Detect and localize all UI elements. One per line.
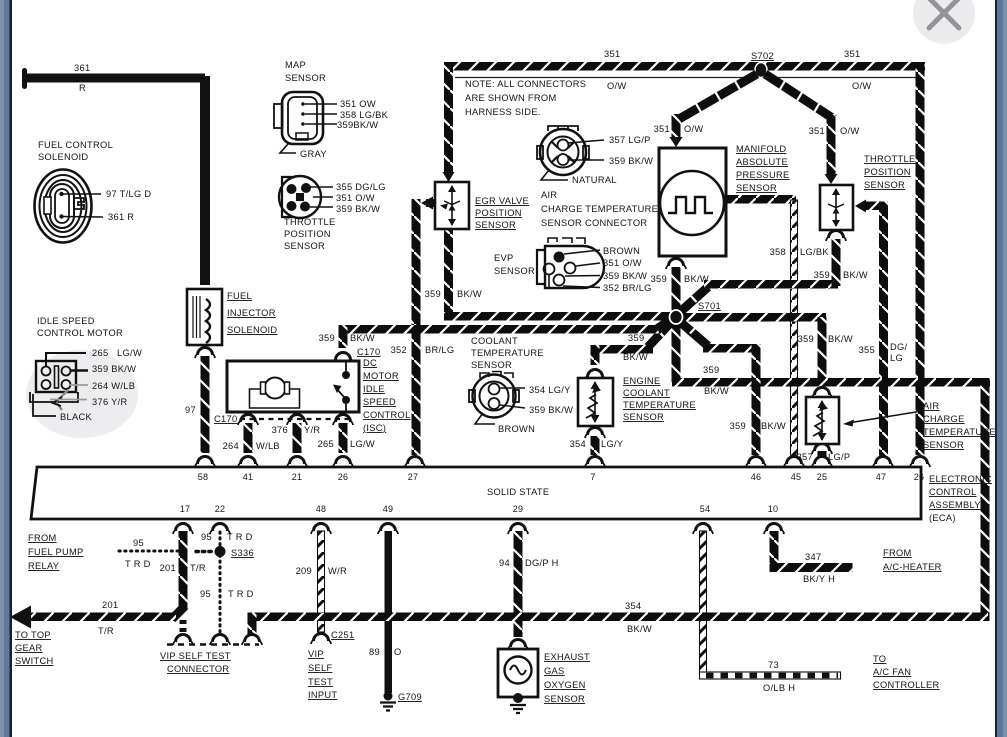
long 354 BK/W hatched bar across bottom	[248, 613, 988, 622]
svg-text:GEAR: GEAR	[15, 643, 43, 653]
svg-text:R: R	[79, 83, 86, 93]
svg-text:264 W/LB: 264 W/LB	[92, 381, 135, 391]
svg-text:357 LG/P: 357 LG/P	[609, 135, 651, 145]
svg-text:INJECTOR: INJECTOR	[227, 308, 276, 318]
svg-text:LG: LG	[890, 353, 903, 363]
right border vertical from bar y=382 down to 354 bar	[981, 378, 990, 621]
svg-text:359 BK/W: 359 BK/W	[336, 204, 380, 214]
svg-text:O/W: O/W	[840, 126, 860, 136]
svg-text:264: 264	[223, 441, 239, 451]
svg-text:AIR: AIR	[923, 401, 939, 411]
S702 diagonal wire to TPS feed	[765, 74, 834, 119]
svg-text:TEMPERATURE: TEMPERATURE	[623, 400, 696, 410]
svg-text:BK/W: BK/W	[828, 334, 853, 344]
ISC top wire 359 BK/W	[339, 325, 348, 348]
svg-text:A/C FAN: A/C FAN	[873, 667, 911, 677]
svg-text:SENSOR: SENSOR	[285, 73, 326, 83]
svg-text:25: 25	[817, 472, 827, 482]
svg-text:26: 26	[338, 472, 348, 482]
svg-text:FUEL CONTROL: FUEL CONTROL	[38, 140, 113, 150]
ECT sensor box (thermistor)	[578, 378, 613, 426]
svg-text:T R D: T R D	[227, 532, 253, 542]
svg-text:PRESSURE: PRESSURE	[736, 170, 790, 180]
ECA solid state box	[31, 467, 921, 519]
svg-text:RELAY: RELAY	[28, 561, 59, 571]
svg-text:357: 357	[797, 452, 813, 462]
svg-text:SENSOR: SENSOR	[623, 412, 664, 422]
pin 46 wire 359 BK/W down	[752, 344, 761, 455]
ACT bottom wire 357 LG/P to pin 25	[818, 451, 827, 456]
svg-text:DG/P H: DG/P H	[525, 558, 559, 568]
bar y=317 from S701 right to ACT drop	[676, 313, 826, 322]
cap below fuel injector solenoid	[195, 348, 215, 359]
svg-text:EXHAUST: EXHAUST	[544, 652, 590, 662]
svg-text:(ISC): (ISC)	[363, 423, 386, 433]
node S702	[755, 63, 767, 78]
svg-text:T R D: T R D	[228, 589, 254, 599]
svg-text:O/W: O/W	[607, 81, 627, 91]
svg-text:359: 359	[628, 333, 644, 343]
wire 201 T/R to left arrow	[26, 613, 176, 622]
svg-text:POSITION: POSITION	[284, 229, 331, 239]
svg-text:351: 351	[604, 49, 620, 59]
svg-text:BK/Y H: BK/Y H	[803, 574, 835, 584]
switch contacts	[345, 361, 347, 371]
coolant temperature sensor connector	[469, 372, 519, 418]
end cap of wire 361 R	[22, 68, 27, 89]
svg-text:SENSOR: SENSOR	[471, 360, 512, 370]
svg-text:FROM: FROM	[883, 548, 912, 558]
ECT bottom wire 354 LG/Y to pin 7	[591, 436, 600, 455]
cap below MAP sensor	[666, 259, 686, 270]
svg-text:48: 48	[316, 504, 326, 514]
svg-text:BROWN: BROWN	[603, 246, 640, 256]
NATURAL hook	[541, 170, 568, 180]
pin 29 wire 94 DG/P H down to EGO sensor	[514, 531, 523, 637]
svg-text:G709: G709	[398, 692, 422, 702]
svg-text:29: 29	[513, 504, 523, 514]
MAP bottom wire 359 BK/W to S701	[672, 267, 681, 314]
DC motor ISC box	[227, 361, 359, 412]
svg-text:BROWN: BROWN	[498, 424, 535, 434]
svg-text:352 BR/LG: 352 BR/LG	[603, 283, 652, 293]
svg-text:W/LB: W/LB	[256, 441, 280, 451]
svg-text:21: 21	[292, 472, 302, 482]
svg-text:C251: C251	[331, 630, 354, 640]
svg-text:IDLE: IDLE	[363, 384, 385, 394]
arrow into MAP box top	[670, 137, 683, 147]
svg-text:SOLENOID: SOLENOID	[227, 325, 277, 335]
svg-text:95: 95	[201, 532, 212, 542]
C170 dashed connector line under ISC	[240, 418, 352, 420]
svg-text:376: 376	[272, 425, 288, 435]
svg-text:T/R: T/R	[190, 563, 206, 573]
svg-text:BK/W: BK/W	[350, 333, 375, 343]
svg-text:EVP: EVP	[494, 253, 514, 263]
ACT sensor box (thermistor)	[806, 397, 839, 444]
svg-text:S702: S702	[751, 51, 774, 61]
svg-text:O/W: O/W	[852, 81, 872, 91]
svg-text:97: 97	[185, 405, 196, 415]
svg-text:209: 209	[296, 566, 312, 576]
caps at ECT sensor	[585, 370, 605, 381]
svg-text:359: 359	[703, 365, 719, 375]
svg-text:CONTROL MOTOR: CONTROL MOTOR	[37, 328, 123, 338]
svg-text:BK/W: BK/W	[623, 352, 648, 362]
triangle at MAP right edge	[718, 194, 727, 205]
bar 359 BK/W from S701 diag up-right to TPS bottom	[679, 287, 708, 313]
svg-text:LG/Y: LG/Y	[601, 439, 623, 449]
svg-text:W/R: W/R	[328, 566, 347, 576]
top border hatched wire (351 O/W)	[444, 62, 925, 71]
svg-text:T R D: T R D	[125, 559, 151, 569]
svg-text:359 BK/W: 359 BK/W	[603, 271, 647, 281]
svg-text:CONTROL: CONTROL	[363, 410, 411, 420]
svg-text:ENGINE: ENGINE	[623, 376, 660, 386]
svg-text:SENSOR: SENSOR	[284, 241, 325, 251]
dotted wire 95 from fuel pump relay	[119, 550, 178, 553]
left blue sidebar	[0, 0, 10, 737]
svg-text:(ECA): (ECA)	[929, 513, 956, 523]
ground G709	[384, 692, 393, 701]
fuel control solenoid connector (concentric ovals)	[35, 170, 92, 243]
svg-text:C170: C170	[357, 347, 380, 357]
svg-text:359 BK/W: 359 BK/W	[529, 405, 573, 415]
cap at ISC top feed	[333, 353, 353, 364]
svg-text:351: 351	[809, 126, 825, 136]
svg-text:IDLE SPEED: IDLE SPEED	[37, 316, 95, 326]
svg-text:LG/BK: LG/BK	[800, 247, 829, 257]
VIP self test connector dashed line	[167, 643, 259, 646]
svg-text:201: 201	[160, 563, 176, 573]
svg-text:O/LB H: O/LB H	[763, 683, 795, 693]
svg-text:SENSOR: SENSOR	[544, 694, 585, 704]
svg-text:47: 47	[876, 472, 886, 482]
svg-text:351: 351	[844, 49, 860, 59]
svg-text:354: 354	[625, 601, 641, 611]
long bar y=382 to right border	[672, 378, 990, 387]
svg-text:95: 95	[200, 589, 211, 599]
svg-text:T/R: T/R	[98, 626, 114, 636]
svg-text:TO: TO	[873, 654, 886, 664]
svg-text:SENSOR: SENSOR	[864, 180, 905, 190]
EVP sensor connector	[537, 238, 604, 288]
ACT drop wire 359 BK/W	[818, 317, 827, 384]
svg-text:359BK/W: 359BK/W	[337, 120, 378, 130]
svg-text:376 Y/R: 376 Y/R	[92, 397, 128, 407]
svg-text:BLACK: BLACK	[60, 412, 92, 422]
svg-text:SENSOR: SENSOR	[736, 183, 777, 193]
MAP sensor connector	[274, 92, 323, 144]
arrowhead to top gear switch	[10, 606, 31, 629]
svg-text:354: 354	[570, 439, 586, 449]
EGR bottom wire 359 BK/W down then right to S701	[444, 229, 453, 316]
svg-text:46: 46	[751, 472, 761, 482]
node S701	[670, 310, 683, 324]
svg-text:359: 359	[425, 289, 441, 299]
ACT sensor connector (round)	[537, 126, 589, 175]
svg-text:CONNECTOR: CONNECTOR	[167, 664, 229, 674]
svg-text:201: 201	[102, 600, 118, 610]
S701 diag down-left to ECT bar	[648, 320, 673, 347]
bar y=329 from ISC to S701	[339, 325, 661, 334]
TPS right side wire 355 DG/LG: arrow, stub, down to pin 47	[855, 200, 866, 213]
358 LG/BK open wire down to pin 45	[791, 200, 798, 455]
svg-text:FUEL PUMP: FUEL PUMP	[28, 547, 84, 557]
svg-text:352: 352	[391, 345, 407, 355]
svg-text:COOLANT: COOLANT	[471, 336, 518, 346]
MAP connector leads	[305, 104, 337, 124]
svg-text:AIR: AIR	[541, 190, 557, 200]
S701 down vertical to bar y=382	[672, 320, 681, 382]
svg-text:54: 54	[700, 504, 710, 514]
svg-text:NOTE: ALL CONNECTORS: NOTE: ALL CONNECTORS	[465, 79, 586, 89]
coolant connector leads	[500, 388, 525, 408]
pin 17 wire down from ECA	[179, 531, 188, 609]
svg-text:27: 27	[408, 472, 418, 482]
svg-text:359 BK/W: 359 BK/W	[609, 156, 653, 166]
svg-text:BR/LG: BR/LG	[425, 345, 454, 355]
svg-text:HARNESS SIDE.: HARNESS SIDE.	[465, 107, 541, 117]
cap above EGO sensor	[508, 640, 528, 651]
svg-text:361: 361	[74, 63, 90, 73]
svg-text:361 R: 361 R	[108, 212, 134, 222]
pin 48 open-dashed wire 209 W/R down to C251	[318, 531, 325, 632]
svg-text:CHARGE: CHARGE	[923, 414, 965, 424]
svg-text:97 T/LG D: 97 T/LG D	[106, 189, 151, 199]
svg-text:265: 265	[318, 439, 334, 449]
svg-text:89: 89	[369, 647, 380, 657]
svg-text:7: 7	[590, 472, 595, 482]
svg-text:O/W: O/W	[684, 124, 704, 134]
S702 diagonal wire to MAP feed	[679, 74, 757, 119]
EGO sensor box	[498, 649, 538, 713]
svg-text:LG/P: LG/P	[828, 452, 850, 462]
svg-text:TEMPERATURE: TEMPERATURE	[471, 348, 544, 358]
dashed stub pin17 to VIP cap	[180, 620, 187, 634]
pin 22 dotted wire 95 T R D	[219, 532, 222, 634]
node S336	[215, 546, 226, 557]
svg-text:BK/W: BK/W	[843, 270, 868, 280]
svg-text:355 DG/LG: 355 DG/LG	[336, 182, 386, 192]
svg-text:17: 17	[180, 504, 190, 514]
bar y=348 to pin 46 drop	[703, 344, 760, 353]
svg-text:VIP: VIP	[308, 649, 324, 659]
svg-text:C170: C170	[214, 414, 237, 424]
S701 diag down-right to pin46 bar	[678, 320, 708, 346]
svg-text:359 BK/W: 359 BK/W	[92, 364, 136, 374]
connector caps at ECA bottom pins	[173, 524, 193, 535]
svg-text:VIP SELF TEST: VIP SELF TEST	[160, 651, 231, 661]
svg-text:265 LG/W: 265 LG/W	[92, 348, 142, 358]
TPS connector (left)	[279, 176, 321, 218]
svg-text:ELECTRONIC: ELECTRONIC	[929, 474, 992, 484]
svg-text:BK/W: BK/W	[684, 274, 709, 284]
corner down to VIP cap	[248, 613, 257, 635]
svg-text:TEMPERATURE: TEMPERATURE	[923, 427, 996, 437]
svg-text:SENSOR: SENSOR	[475, 220, 516, 230]
svg-text:S701: S701	[698, 301, 721, 311]
svg-text:ABSOLUTE: ABSOLUTE	[736, 157, 788, 167]
arrow into TPS box top	[825, 174, 838, 184]
strain hook	[56, 390, 68, 410]
cap at C251	[311, 634, 331, 645]
ECA pin numbers top row	[180, 472, 924, 514]
svg-text:INPUT: INPUT	[308, 690, 337, 700]
bar y=349 to ECT top	[591, 345, 653, 354]
pin 49 solid wire 89 O down to G709	[385, 531, 393, 693]
svg-text:SENSOR CONNECTOR: SENSOR CONNECTOR	[541, 218, 647, 228]
svg-text:95: 95	[133, 538, 144, 548]
caps at VIP self test connector	[173, 635, 193, 646]
svg-text:45: 45	[791, 472, 801, 482]
caps at ACT sensor	[812, 388, 832, 399]
svg-text:S336: S336	[231, 548, 254, 558]
svg-text:FUEL: FUEL	[227, 291, 252, 301]
352 BR/LG vertical wire down to pin 27	[412, 199, 421, 455]
ECT top wire down	[591, 345, 600, 365]
svg-text:BK/W: BK/W	[627, 624, 652, 634]
svg-text:SPEED: SPEED	[363, 397, 396, 407]
svg-text:EGR VALVE: EGR VALVE	[475, 196, 529, 206]
svg-text:DG/: DG/	[890, 342, 908, 352]
svg-text:359: 359	[730, 421, 746, 431]
svg-text:351: 351	[654, 124, 670, 134]
svg-text:THROTTLE: THROTTLE	[864, 154, 915, 164]
svg-text:359: 359	[798, 334, 814, 344]
caps at ISC pins	[238, 415, 258, 426]
svg-text:CHARGE TEMPERATURE: CHARGE TEMPERATURE	[541, 204, 658, 214]
fuel injector solenoid box	[187, 289, 222, 345]
svg-text:347: 347	[805, 552, 821, 562]
leads for fuel control solenoid	[61, 194, 103, 217]
pin 54 open-dashed wire down then right 73 O/LB H	[700, 531, 707, 673]
svg-text:358: 358	[770, 247, 786, 257]
svg-text:SENSOR: SENSOR	[923, 440, 964, 450]
svg-text:41: 41	[243, 472, 253, 482]
wire 361 R thick solid from top-left to fuel injector solenoid	[25, 76, 205, 285]
svg-text:THROTTLE: THROTTLE	[284, 217, 335, 227]
MAP sensor box	[659, 148, 726, 256]
svg-text:354 LG/Y: 354 LG/Y	[529, 385, 571, 395]
ACT connector leads	[568, 140, 604, 160]
leads for ISC motor connector	[46, 353, 86, 367]
svg-text:FROM: FROM	[28, 533, 57, 543]
svg-text:OXYGEN: OXYGEN	[544, 680, 586, 690]
svg-text:351 OW: 351 OW	[340, 99, 376, 109]
svg-text:359: 359	[651, 274, 667, 284]
TPS connector leads	[310, 187, 333, 207]
svg-text:ARE SHOWN FROM: ARE SHOWN FROM	[465, 93, 557, 103]
EGR left stub wire 352 BR/LG with left arrow	[426, 199, 437, 207]
svg-text:LG/W: LG/W	[350, 439, 375, 449]
svg-text:CONTROL: CONTROL	[929, 487, 977, 497]
motor circle with tabs	[265, 378, 286, 399]
thin underline below top border wire	[455, 77, 917, 79]
callout arrow to ACT box	[848, 411, 922, 423]
cap below TPS	[826, 231, 846, 242]
svg-text:SELF: SELF	[308, 663, 332, 673]
EVP connector leads	[563, 250, 600, 288]
svg-text:26: 26	[914, 472, 924, 482]
svg-text:BK/W: BK/W	[457, 289, 482, 299]
svg-text:DC: DC	[363, 358, 377, 368]
svg-text:49: 49	[383, 504, 393, 514]
svg-text:CONTROLLER: CONTROLLER	[873, 680, 940, 690]
fuel injector bottom wire 97 down to pin 58	[201, 356, 210, 453]
svg-text:Y/R: Y/R	[304, 425, 320, 435]
svg-text:22: 22	[215, 504, 225, 514]
TPS feed wire 351 O/W	[827, 114, 836, 176]
svg-text:73: 73	[768, 660, 779, 670]
MAP sensor feed wire 351 O/W	[672, 114, 681, 140]
svg-text:GRAY: GRAY	[300, 149, 327, 159]
arrow into EGR box top	[443, 172, 455, 182]
TPS box	[820, 185, 853, 230]
svg-text:A/C-HEATER: A/C-HEATER	[883, 562, 942, 572]
pin 10 wire down then right 347 BK/Y H	[770, 531, 779, 572]
pin 17 diagonal to 201 wire	[172, 606, 185, 619]
svg-text:SWITCH: SWITCH	[15, 656, 53, 666]
svg-text:359: 359	[814, 270, 830, 280]
svg-text:GAS: GAS	[544, 666, 565, 676]
wire from MAP right side (358 LG/BK) horizontal	[727, 195, 796, 204]
ISC pin wires 264 W/LB, 376 Y/R, 265 LG/W	[244, 423, 253, 453]
svg-text:ASSEMBLY: ASSEMBLY	[929, 500, 981, 510]
svg-text:58: 58	[198, 472, 208, 482]
svg-text:SOLID STATE: SOLID STATE	[487, 487, 549, 497]
connector caps at ECA top pins	[195, 457, 215, 468]
svg-text:BK/W: BK/W	[704, 386, 729, 396]
close button	[913, 0, 975, 44]
idle speed control motor connector	[30, 361, 78, 410]
svg-text:355: 355	[859, 345, 875, 355]
svg-text:NATURAL: NATURAL	[572, 175, 617, 185]
svg-text:COOLANT: COOLANT	[623, 388, 670, 398]
svg-text:351 O/W: 351 O/W	[603, 258, 642, 268]
svg-text:351 O/W: 351 O/W	[336, 193, 375, 203]
svg-text:358 LG/BK: 358 LG/BK	[340, 110, 389, 120]
svg-text:SOLENOID: SOLENOID	[38, 152, 88, 162]
right blue sidebar	[995, 0, 1007, 737]
svg-text:MANIFOLD: MANIFOLD	[736, 144, 786, 154]
right border vertical hatched wire (x=920) from top border down to pin 26	[916, 62, 925, 455]
GRAY hook	[280, 144, 296, 153]
svg-text:MOTOR: MOTOR	[363, 371, 399, 381]
svg-text:10: 10	[768, 504, 778, 514]
svg-text:MAP: MAP	[285, 60, 306, 70]
svg-text:TO TOP: TO TOP	[15, 630, 51, 640]
svg-text:TEST: TEST	[308, 677, 333, 687]
EGR valve position sensor box	[435, 182, 469, 229]
BROWN hook	[475, 413, 495, 424]
svg-text:O: O	[394, 647, 402, 657]
svg-text:POSITION: POSITION	[475, 208, 522, 218]
gray blob behind ISC motor connector	[26, 350, 138, 438]
svg-text:94: 94	[499, 558, 510, 568]
svg-text:BK/W: BK/W	[761, 421, 786, 431]
left border vertical hatched wire down to EGR sensor	[444, 62, 453, 174]
svg-text:SENSOR: SENSOR	[494, 266, 535, 276]
svg-text:359: 359	[319, 333, 335, 343]
svg-text:POSITION: POSITION	[864, 167, 911, 177]
